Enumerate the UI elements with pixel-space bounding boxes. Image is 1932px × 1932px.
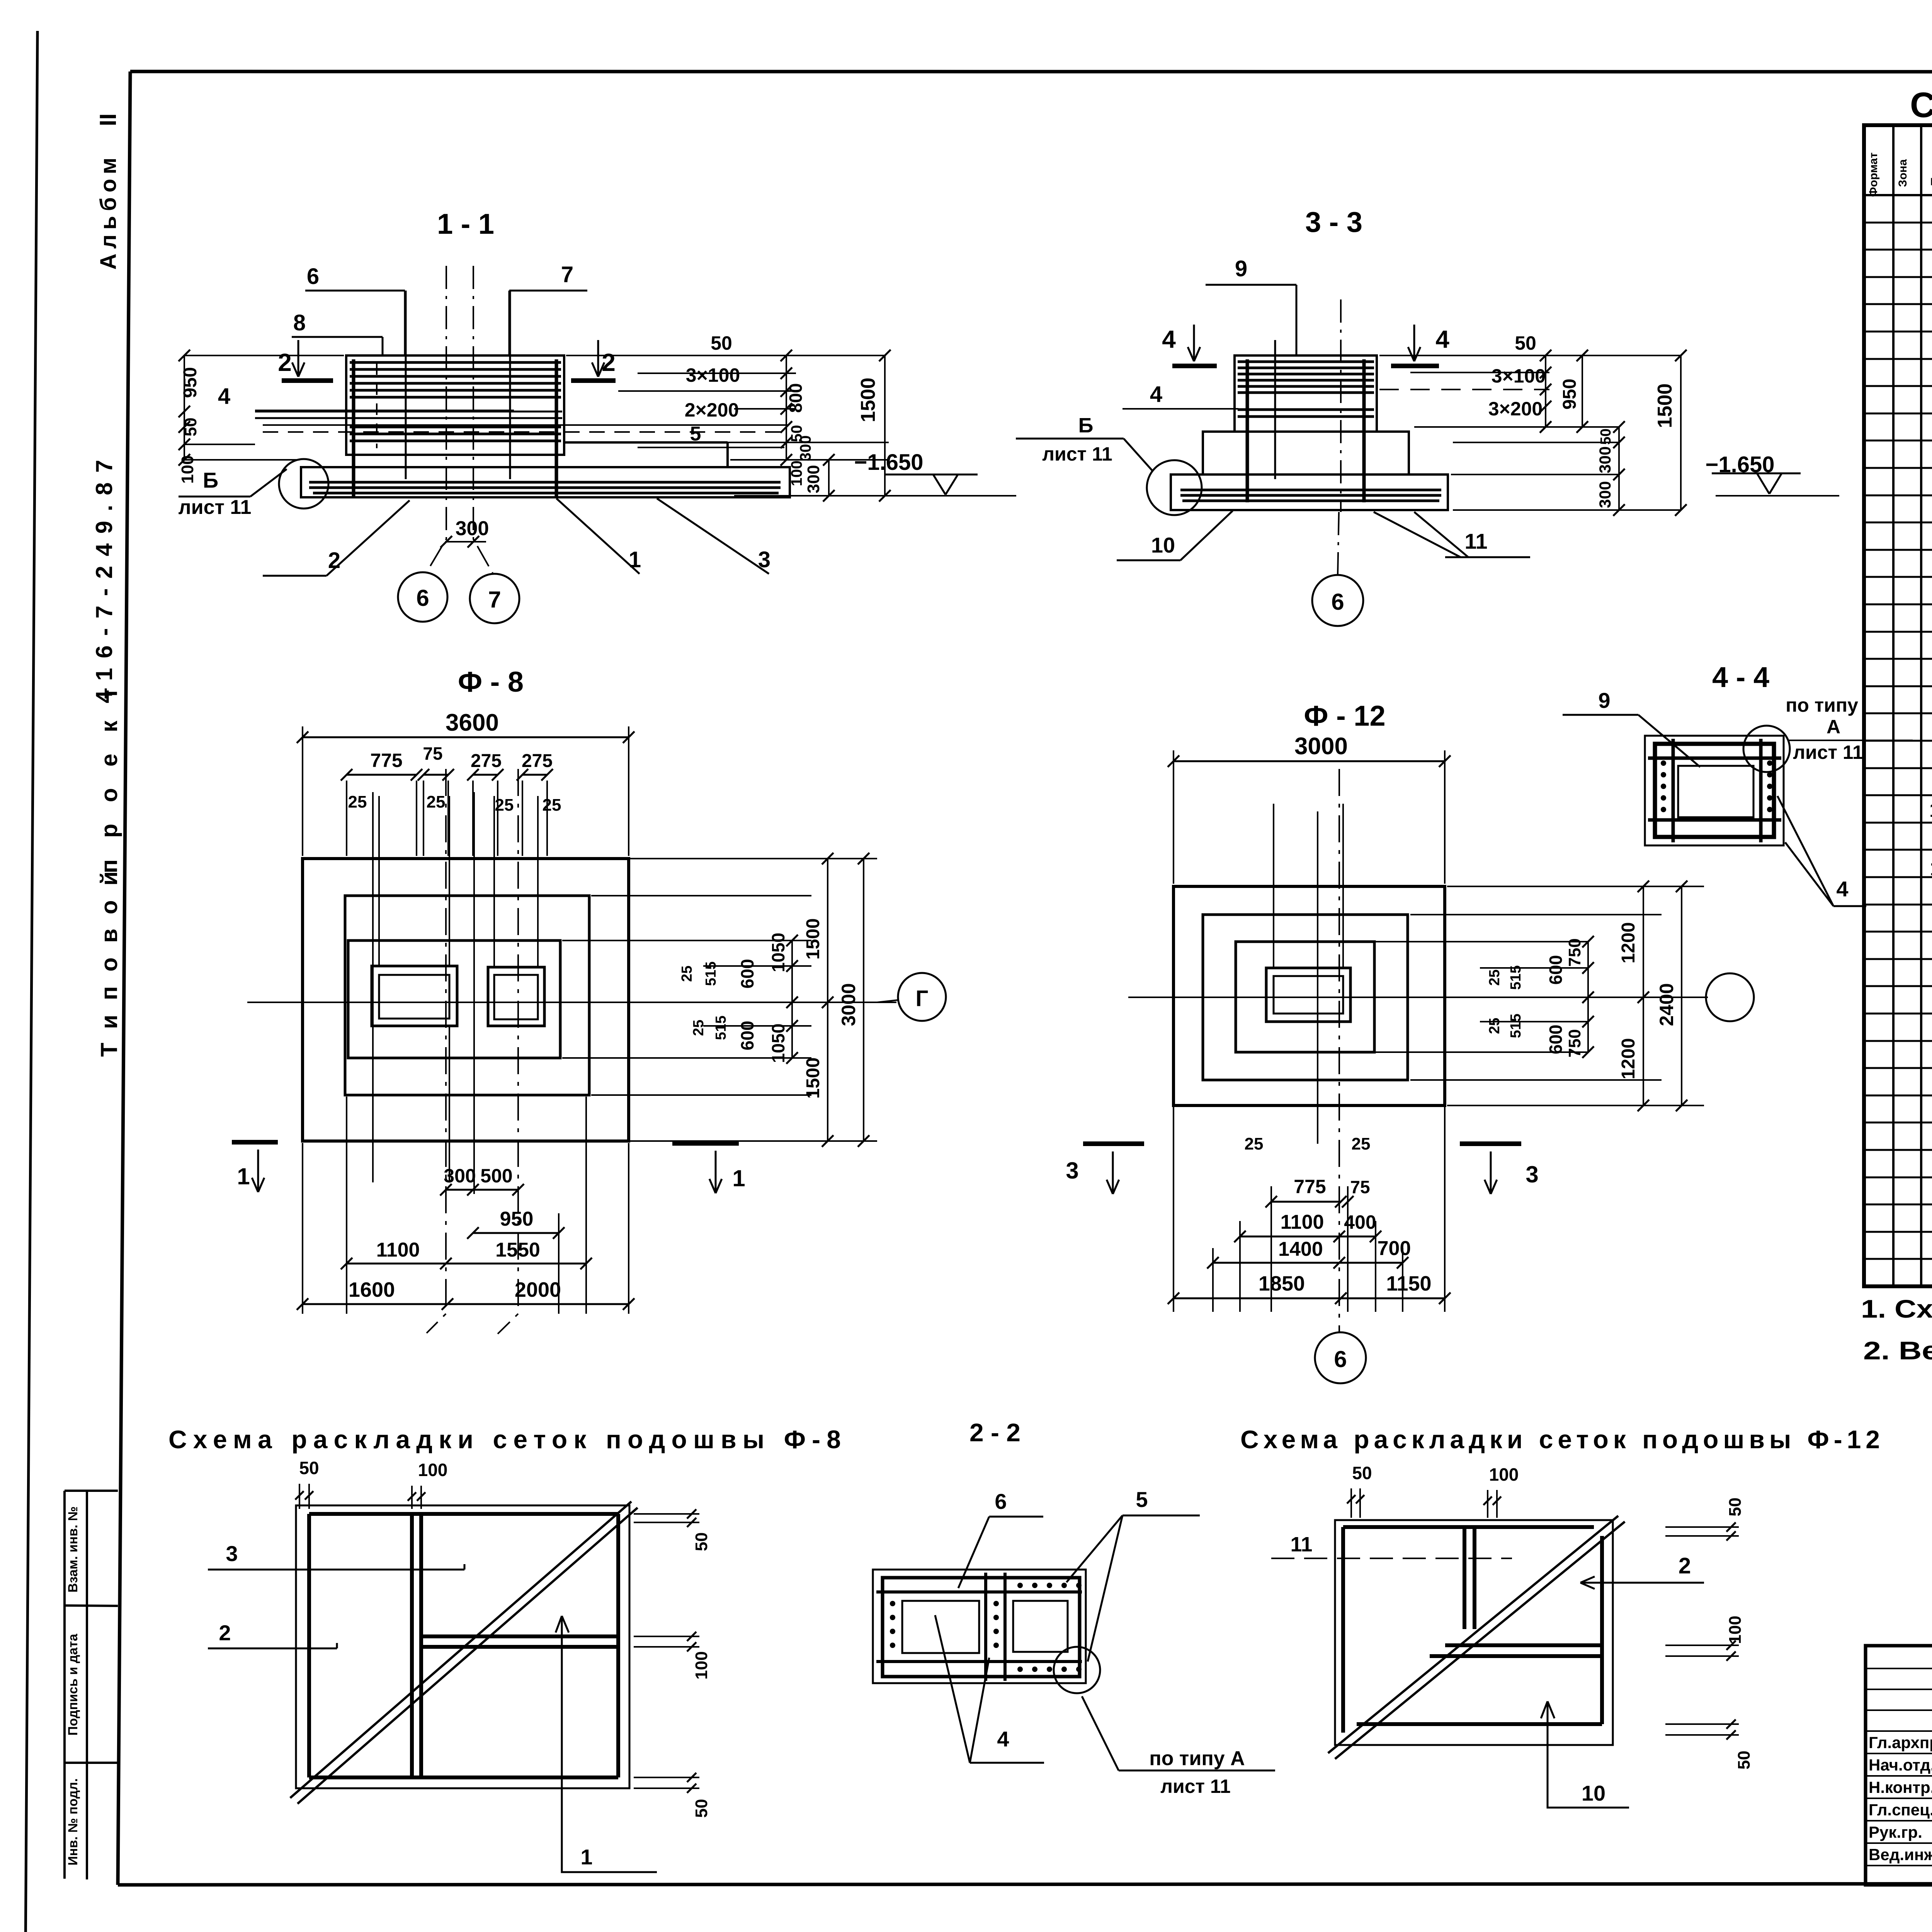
detail 4-4 horizontal bars [1648,757,1781,760]
svg-text:Б: Б [1078,414,1094,437]
svg-text:7: 7 [561,262,573,287]
svg-text:3 - 3: 3 - 3 [1305,206,1362,238]
section 1-1 dashed form line [376,363,378,448]
outer page edge line left [26,31,37,1932]
scheme F-12 vertical divider [1463,1527,1466,1629]
svg-text:515: 515 [703,961,719,986]
plan F-8 section mark 1 left [232,1140,278,1145]
svg-text:1050: 1050 [768,933,788,972]
svg-text:Формат: Формат [1867,152,1880,197]
svg-text:600: 600 [737,1021,757,1051]
svg-text:275: 275 [522,751,553,771]
section 1-1 right step [564,441,728,444]
svg-text:11: 11 [1464,529,1487,553]
svg-text:5: 5 [1136,1487,1148,1512]
svg-text:25: 25 [1486,1018,1503,1034]
axis circle 6 plan F-12 [1315,1332,1366,1383]
svg-text:50: 50 [1726,1498,1745,1517]
plan F-8 dim 3600 [303,736,629,738]
svg-text:1400: 1400 [1278,1238,1323,1260]
svg-text:Схема раскладки сеток подошвы: Схема раскладки сеток подошвы Ф-12 [1240,1425,1880,1454]
scheme F-12 right dims [1665,1526,1739,1528]
svg-text:515: 515 [1508,1014,1524,1038]
svg-text:Гл.архпр: Гл.архпр [1869,1733,1932,1752]
spec table outer border [1864,125,1932,1286]
svg-text:2 - 2: 2 - 2 [969,1418,1020,1447]
svg-text:8: 8 [293,310,306,335]
svg-text:1500: 1500 [803,1058,823,1099]
plan F-12 right dim 1200 chain [1643,886,1644,1105]
scheme F-12 right horizontal divider [1445,1643,1602,1647]
plan F-8 left pocket inner [379,975,449,1019]
svg-text:25: 25 [427,793,446,811]
svg-text:6: 6 [1334,1346,1347,1372]
plan F-8 vertical cut line b [473,792,475,1194]
svg-text:Рук.гр.: Рук.гр. [1869,1823,1922,1841]
plan F-8 section mark 1 right [672,1141,739,1146]
svg-text:6: 6 [307,264,319,289]
svg-text:50: 50 [181,418,200,437]
svg-text:II: II [95,113,121,126]
svg-text:5: 5 [690,423,701,445]
plan F-12 dim 3000 top [1173,760,1445,762]
svg-text:6: 6 [416,585,429,611]
svg-text:Инв. № подл.: Инв. № подл. [66,1778,80,1866]
svg-text:100: 100 [418,1460,448,1480]
title block signature rows [1866,1753,1932,1754]
svg-text:25: 25 [348,793,367,811]
right dim chain 1-1 small [786,355,787,460]
svg-text:3000: 3000 [1294,733,1348,760]
plan F-8 pocket edge projection lines [378,796,380,966]
plan F-8 bottom dim 300-500 [446,1189,518,1191]
svg-text:750: 750 [1565,1029,1584,1057]
detail 4-4 type circle [1743,726,1790,772]
right dim chain 3-3 small [1545,355,1546,427]
svg-text:Г: Г [916,986,929,1011]
svg-text:700: 700 [1378,1237,1411,1260]
svg-text:по типу А: по типу А [1149,1747,1245,1770]
section 2-2 outer rect [873,1570,1086,1683]
plan F-8 vertical cut line a [372,792,374,1182]
svg-text:300: 300 [804,465,823,493]
svg-text:9: 9 [1235,256,1247,281]
svg-text:Н.контр.: Н.контр. [1869,1778,1932,1796]
left attribute boxes column [63,1491,66,1879]
svg-text:50: 50 [1515,332,1536,354]
plan F-12 vertical axis line [1338,769,1340,1333]
svg-text:2: 2 [278,349,292,376]
svg-text:300: 300 [797,435,814,461]
plan F-8 bottom extension lines [346,1097,347,1314]
svg-text:3600: 3600 [446,709,499,736]
svg-text:775: 775 [370,750,402,771]
svg-text:275: 275 [471,751,502,771]
svg-text:1: 1 [732,1165,745,1191]
plan F-12 section mark 3 left [1083,1141,1144,1146]
plan F-8 right projection lines [630,858,877,859]
svg-text:1500: 1500 [1654,383,1676,428]
svg-text:лист 11: лист 11 [1793,742,1863,763]
svg-text:лист 11: лист 11 [1160,1776,1231,1797]
svg-text:2: 2 [219,1621,231,1645]
plan F-12 section mark 3 right [1460,1141,1521,1146]
title block upper empty rows [1866,1668,1932,1669]
svg-text:Гл.спец.: Гл.спец. [1869,1801,1932,1819]
svg-text:9: 9 [1598,688,1610,713]
svg-text:300: 300 [1596,481,1614,508]
section 1-1 pier vertical bars [352,359,355,497]
svg-text:10: 10 [1582,1781,1605,1805]
svg-text:6: 6 [995,1489,1007,1514]
svg-text:25: 25 [679,966,695,982]
svg-text:1: 1 [237,1163,250,1189]
svg-text:950: 950 [500,1208,534,1230]
plan F-12 right small dims [1587,942,1589,1052]
svg-text:950: 950 [1560,379,1580,410]
plan F-12 pocket outer [1266,968,1350,1022]
svg-text:25: 25 [1245,1134,1264,1153]
svg-text:1850: 1850 [1259,1272,1305,1295]
svg-text:1500: 1500 [803,918,823,960]
scheme F-8 outer square [296,1505,629,1788]
section 2-2 rebar dots [1017,1583,1023,1588]
scheme F-12 outer square [1335,1520,1613,1745]
svg-text:11: 11 [1290,1533,1312,1556]
section 3-3 pier horizontal rebar [1238,361,1374,363]
svg-text:10: 10 [1151,533,1175,557]
section 1-1 mesh layer lines [255,411,562,413]
section 1-1 pier horizontal rebar [350,361,561,364]
svg-text:1100: 1100 [1281,1211,1324,1233]
axis circle 6 section 1-1 [398,572,447,622]
scheme F-8 right dims [634,1513,699,1515]
section 2-2 left opening [902,1601,979,1653]
section 3-3 middle step [1203,432,1409,474]
dim 300 lower right 1-1 [828,460,830,496]
spec table row grid [1864,222,1932,224]
plan F-12 vertical cut line [1317,811,1318,1144]
svg-text:1050: 1050 [768,1024,788,1063]
svg-text:А: А [1827,716,1840,738]
svg-text:75: 75 [423,743,442,764]
svg-text:50: 50 [1735,1751,1753,1770]
section 3-3 pier outline [1235,355,1377,432]
detail 4-4 vertical bars [1672,739,1675,842]
plan F-8 axis 6 line [427,769,446,1333]
section 2-2 mesh frame [883,1578,1080,1677]
plan F-12 bottom dim 1100-400 [1240,1236,1376,1238]
svg-text:4: 4 [997,1727,1009,1751]
detail 4-4 rebar dots [1661,760,1666,766]
svg-text:25: 25 [1352,1134,1371,1153]
scheme F-12 mesh thick border [1343,1525,1594,1529]
plan F-12 right projection lines [1447,886,1704,887]
plan F-8 outer slab rect [303,859,629,1141]
svg-text:Поз.: Поз. [1929,160,1932,186]
svg-text:1500: 1500 [857,378,879,422]
plan F-8 left pocket outer [372,966,457,1026]
svg-text:Ф - 8: Ф - 8 [458,666,524,698]
plan F-12 bottom extension lines [1173,1107,1174,1312]
plan F-8 top small dims [347,774,417,776]
svg-text:лист 11: лист 11 [1042,443,1112,465]
svg-text:Нач.отд.: Нач.отд. [1869,1756,1932,1774]
svg-text:6: 6 [1331,589,1344,615]
svg-text:50: 50 [299,1458,319,1478]
svg-text:4 - 4: 4 - 4 [1712,661,1769,693]
scheme F-12 diagonal [1328,1516,1618,1753]
right rotated dims 3-3 [1582,355,1583,427]
section 1-1 base slab [301,467,790,497]
title block outline [1866,1646,1932,1885]
axis circle right F-12 [1706,973,1754,1021]
scheme F-8 right horizontal divider [421,1634,618,1638]
svg-text:25: 25 [543,796,561,815]
svg-text:3×100: 3×100 [1492,365,1546,387]
svg-text:3×200: 3×200 [1488,398,1543,420]
svg-text:1200: 1200 [1618,922,1639,964]
svg-text:3000: 3000 [838,983,859,1026]
svg-text:Б: Б [203,468,218,492]
detail 4-4 outer rect [1645,736,1784,845]
plan F-8 bottom dim 1600-2000 [303,1303,629,1305]
plan F-12 middle step rect [1203,915,1408,1080]
dim 1500 vertical 3-3 [1680,355,1682,510]
plan F-12 bottom dim 1850-1150 [1173,1298,1445,1299]
svg-text:2400: 2400 [1656,983,1677,1026]
plan F-12 inner step rect [1236,942,1374,1052]
section 1-1 weld detail circle [279,459,328,509]
svg-text:1600: 1600 [349,1278,395,1301]
svg-text:25: 25 [1486,969,1503,986]
svg-text:515: 515 [1508,965,1524,990]
axis circle 6 section 3-3 [1312,575,1363,626]
svg-text:4: 4 [1435,325,1449,353]
svg-text:Подпись и дата: Подпись и дата [66,1633,80,1736]
svg-text:1150: 1150 [1386,1272,1431,1295]
svg-text:7: 7 [488,587,501,612]
svg-text:−1.650: −1.650 [854,450,923,475]
plan F-12 right dim 2400 [1681,886,1682,1105]
scheme F-8 diagonal [290,1502,631,1798]
svg-text:1100: 1100 [376,1239,420,1261]
spec table column lines [1892,125,1895,1286]
svg-text:50: 50 [692,1532,711,1551]
svg-text:по типу: по типу [1786,694,1858,716]
svg-text:50: 50 [711,332,732,354]
right projection lines 1-1 [566,355,885,356]
plan F-12 bottom dim 775-75 [1271,1201,1341,1203]
spec table header row line [1864,194,1932,196]
plan F-12 pocket edge projection lines [1273,804,1274,968]
plan F-8 inner step rect [348,940,560,1058]
svg-text:600: 600 [1546,955,1566,985]
svg-text:50: 50 [1352,1463,1372,1483]
section 2-2 horizontal bars [876,1590,1082,1594]
svg-text:25: 25 [690,1020,707,1036]
section 2-2 right opening [1013,1601,1068,1652]
svg-text:750: 750 [1565,938,1584,966]
plan F-8 right pocket outer [488,967,544,1026]
section 1-1 pier outline [346,355,564,455]
svg-text:50: 50 [1598,429,1614,445]
svg-text:Вед.инж: Вед.инж [1869,1845,1932,1864]
dim 1500 vertical 1-1 [884,355,886,496]
svg-text:100: 100 [692,1651,711,1679]
svg-text:3: 3 [1066,1158,1078,1184]
svg-text:4: 4 [218,384,230,409]
svg-text:950: 950 [180,367,201,398]
plan F-8 horizontal centre line [247,1002,896,1003]
svg-text:Спецификация к фундаментам: Спецификация к фундаментам [1910,85,1932,125]
section 1-1 slab rebar lines [309,481,781,484]
plan F-12 pocket inner [1274,976,1343,1014]
section 3-3 weld detail circle [1147,460,1202,515]
svg-text:500: 500 [480,1165,512,1187]
svg-text:4: 4 [1836,877,1848,901]
section 3-3 base slab [1171,474,1448,510]
svg-text:10: 10 [1929,799,1932,821]
svg-text:11: 11 [1930,857,1932,880]
svg-text:300: 300 [444,1165,476,1187]
svg-text:300: 300 [456,517,489,540]
svg-text:50: 50 [692,1799,711,1818]
svg-text:515: 515 [713,1015,729,1040]
plan F-8 middle step rect [345,896,589,1095]
svg-text:2. Ведомость расхода стали на: 2. Ведомость расхода стали на элемент см… [1863,1336,1932,1365]
svg-text:1: 1 [580,1845,592,1869]
svg-text:1 - 1: 1 - 1 [437,208,494,240]
svg-text:100: 100 [178,455,197,483]
svg-text:400: 400 [1344,1211,1376,1233]
axis circle 7 section 1-1 [470,574,519,623]
plan F-12 bottom dim 1400-700 [1213,1262,1403,1264]
section 3-3 axis line [1340,299,1342,512]
left dim chain 1-1 [184,355,185,460]
svg-text:Зона: Зона [1896,159,1909,187]
svg-text:2000: 2000 [515,1278,561,1301]
svg-text:Взам. инв. №: Взам. инв. № [66,1506,80,1592]
plan F-12 horizontal centre line [1128,997,1708,998]
section 2-2 middle bars [984,1573,987,1681]
svg-text:1550: 1550 [495,1239,540,1261]
plan F-12 outer slab rect [1173,886,1445,1105]
plan F-8 right dim 1500 chain [827,859,828,1141]
svg-text:775: 775 [1294,1176,1326,1197]
svg-text:100: 100 [788,461,805,486]
scheme F-8 mesh thick border [309,1512,618,1516]
svg-text:100: 100 [1726,1616,1745,1644]
svg-text:Ф - 12: Ф - 12 [1304,700,1385,732]
svg-text:75: 75 [1350,1177,1370,1197]
plan F-8 axis 7 line [498,769,518,1334]
svg-text:600: 600 [737,959,757,989]
svg-text:800: 800 [786,383,806,413]
svg-text:600: 600 [1546,1025,1566,1054]
svg-text:2×200: 2×200 [685,399,739,421]
section 3-3 pier vertical bars [1246,359,1249,502]
section 2-2 detail circle [1054,1647,1100,1693]
svg-text:1. Схему расположения фундамен: 1. Схему расположения фундаментов см. ли… [1861,1294,1932,1323]
scheme F-8 vertical divider [410,1514,414,1777]
svg-text:3×100: 3×100 [686,364,740,386]
svg-text:3: 3 [1526,1162,1538,1187]
plan F-8 bottom dim 1100-1550 [347,1263,586,1265]
plan F-8 right pocket inner [494,975,538,1019]
plan F-8 right dim small chain [791,940,793,1058]
axis circle G [898,973,946,1021]
section 1-1 axis line 6 [427,266,446,572]
svg-text:4: 4 [1162,325,1176,353]
right projection lines 3-3 [1379,355,1681,356]
svg-text:3: 3 [226,1541,238,1566]
svg-text:2: 2 [1679,1553,1691,1578]
svg-text:100: 100 [1489,1464,1519,1485]
svg-text:лист 11: лист 11 [179,496,252,519]
svg-text:300: 300 [1596,446,1614,473]
section 3-3 slab rebar lines [1180,489,1441,492]
detail 4-4 mesh frame [1655,744,1774,837]
section 1-1 axis line 7 [473,266,493,574]
plan F-8 right dim 3000 [863,859,864,1141]
detail 4-4 inner opening [1678,766,1753,817]
svg-text:1200: 1200 [1618,1038,1639,1080]
svg-text:4: 4 [1150,382,1162,407]
plan F-8 bottom dim 950 [473,1232,559,1234]
